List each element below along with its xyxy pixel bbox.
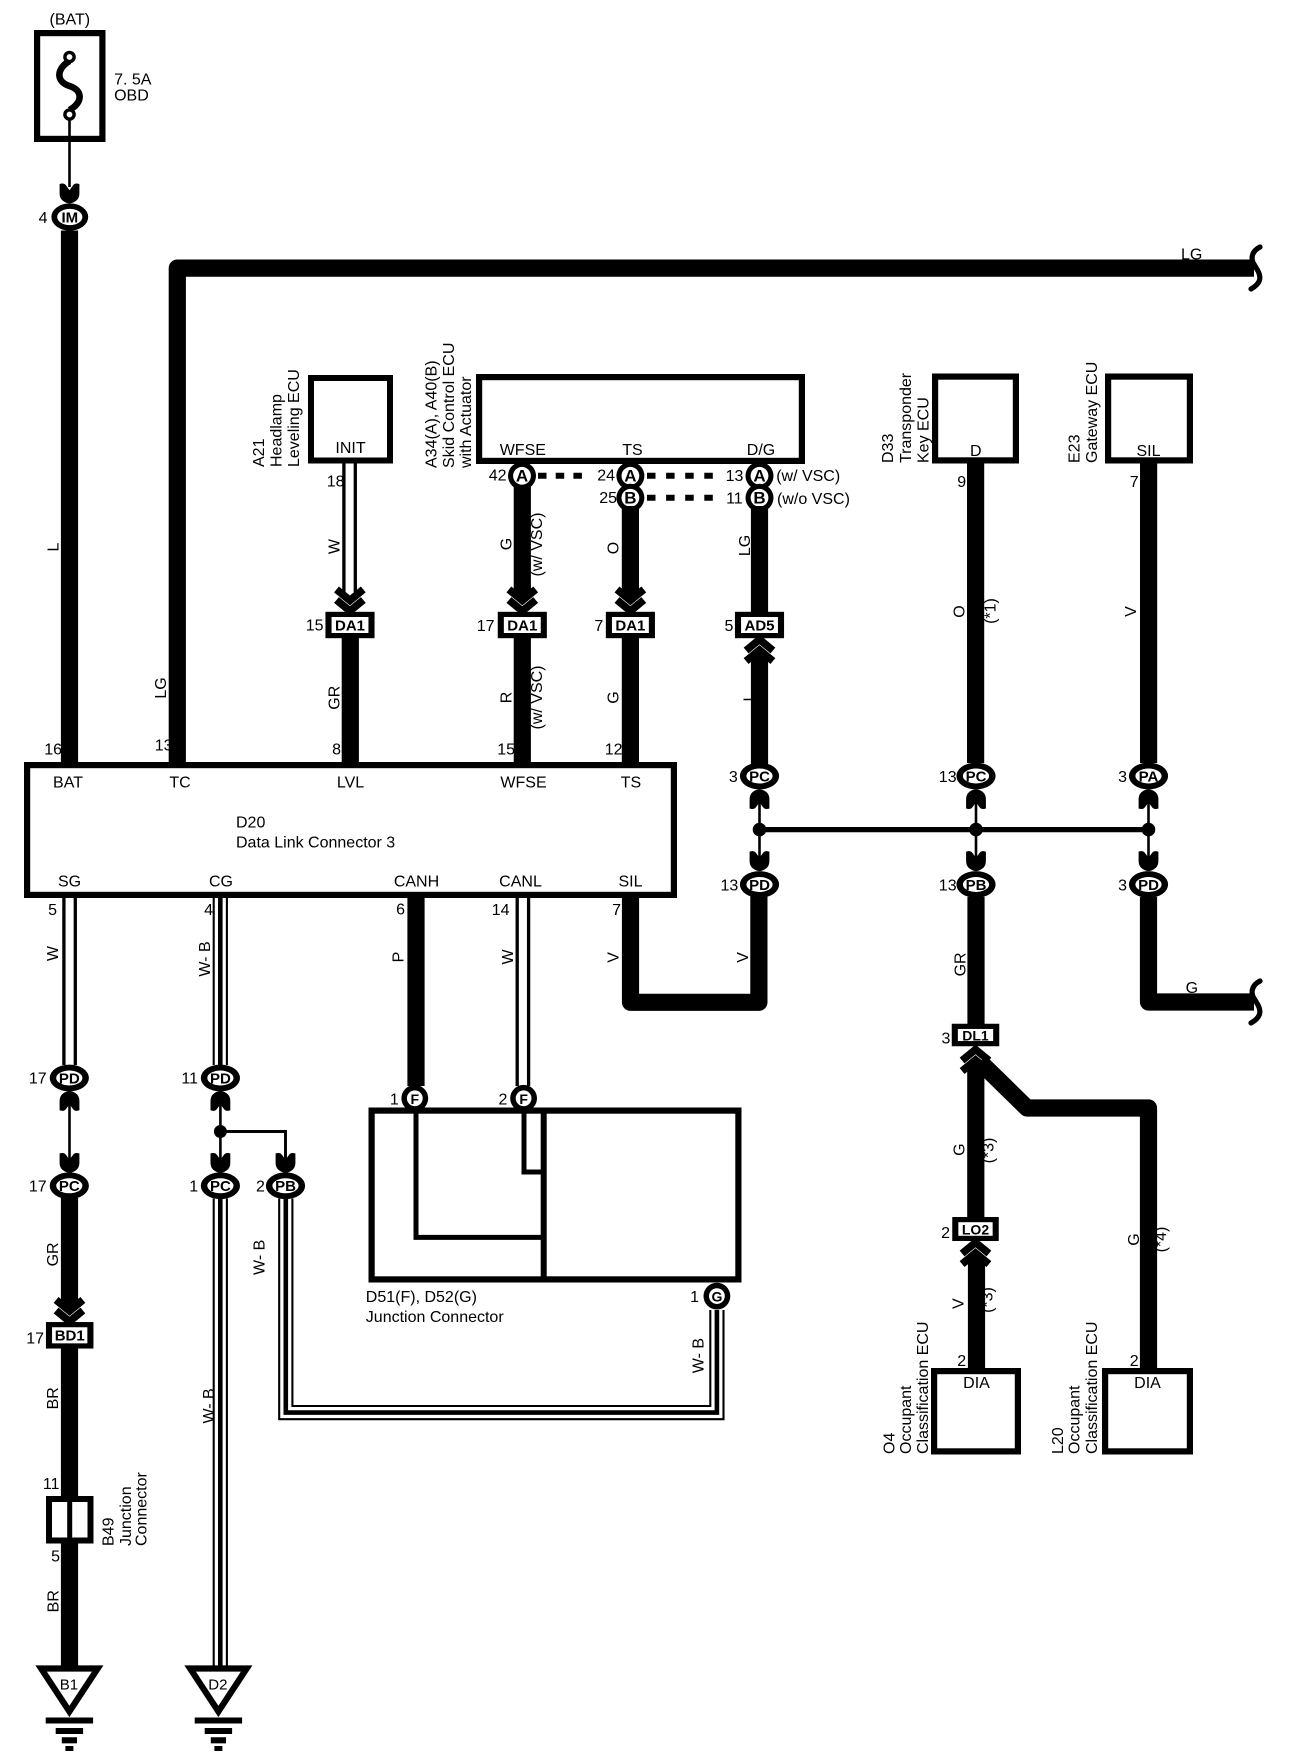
svg-text:D51(F), D52(G): D51(F), D52(G) <box>366 1289 477 1306</box>
svg-text:A: A <box>516 466 528 485</box>
svg-text:13: 13 <box>155 738 173 755</box>
svg-text:13: 13 <box>939 878 957 895</box>
svg-text:11: 11 <box>181 1071 198 1088</box>
svg-text:WFSE: WFSE <box>500 442 546 459</box>
arrow into PD <box>1139 851 1159 871</box>
link wire PC-PD column 1 <box>758 790 761 871</box>
svg-text:V: V <box>1123 606 1140 617</box>
ECU O4 Occupant Classification ECU <box>882 1322 1018 1454</box>
wire BR BD1 to B49 <box>61 1349 78 1497</box>
wire GR PC to BD1 <box>61 1198 78 1308</box>
svg-text:W- B: W- B <box>197 941 214 976</box>
arrow into PB <box>966 851 986 871</box>
svg-text:Gateway ECU: Gateway ECU <box>1084 362 1101 463</box>
svg-text:PC: PC <box>210 1178 231 1195</box>
svg-text:5: 5 <box>724 618 733 635</box>
svg-text:O: O <box>952 605 969 617</box>
arrow into PD <box>211 1091 231 1111</box>
wire R w/VSC DA1 to WFSE pin <box>514 638 531 764</box>
arrow out of AD5 <box>746 640 773 662</box>
svg-text:3: 3 <box>1118 769 1127 786</box>
svg-text:Transponder: Transponder <box>898 372 915 463</box>
svg-text:7: 7 <box>1130 474 1139 491</box>
svg-text:LVL: LVL <box>337 775 364 792</box>
svg-text:SIL: SIL <box>618 874 642 891</box>
svg-text:G: G <box>1186 980 1198 997</box>
arrow into PC <box>750 789 770 809</box>
bus link line between columns <box>756 827 1149 832</box>
svg-text:F: F <box>519 1091 528 1107</box>
svg-text:13: 13 <box>726 468 744 485</box>
svg-text:3: 3 <box>729 769 738 786</box>
svg-text:Connector: Connector <box>134 1472 151 1546</box>
svg-text:CANH: CANH <box>394 874 439 891</box>
svg-text:D: D <box>970 443 982 460</box>
svg-text:CANL: CANL <box>499 874 542 891</box>
svg-text:Data Link Connector 3: Data Link Connector 3 <box>236 835 395 852</box>
wire L from IM to DLC3 BAT <box>61 231 78 765</box>
junction dot column2 <box>969 823 983 837</box>
wire V SIL to connector PD <box>631 896 759 1002</box>
svg-text:PD: PD <box>749 877 770 894</box>
arrow into IM <box>60 184 80 204</box>
svg-text:DA1: DA1 <box>507 617 537 634</box>
svg-text:BR: BR <box>45 1387 62 1409</box>
arrow out of LO2 <box>962 1243 989 1265</box>
svg-text:14: 14 <box>492 902 510 919</box>
ECU E23 Gateway ECU <box>1067 362 1190 463</box>
svg-text:11: 11 <box>43 1476 60 1493</box>
svg-text:DA1: DA1 <box>615 617 645 634</box>
svg-text:PA: PA <box>1139 768 1159 785</box>
svg-text:25: 25 <box>599 490 617 507</box>
arrow into DA1 <box>617 589 644 611</box>
wire P CANH to junction connector F <box>407 896 424 1086</box>
dashed link 25B-11B <box>647 495 714 501</box>
svg-text:PD: PD <box>59 1070 80 1087</box>
svg-text:(*3): (*3) <box>980 1287 997 1313</box>
wire W-B CG to PD <box>213 896 215 1065</box>
svg-text:PD: PD <box>1138 877 1159 894</box>
junction connector B49 <box>49 1472 151 1546</box>
svg-text:D20: D20 <box>236 815 265 832</box>
svg-text:2: 2 <box>941 1225 950 1242</box>
svg-text:17: 17 <box>29 1179 47 1196</box>
svg-text:TS: TS <box>621 775 641 792</box>
wire V (*3) LO2 to O4 DIA <box>968 1257 985 1369</box>
svg-text:LG: LG <box>1181 247 1202 264</box>
svg-text:7: 7 <box>594 618 603 635</box>
ECU L20 Occupant Classification ECU <box>1050 1322 1190 1454</box>
wire break symbol <box>1251 247 1260 289</box>
wire W SG to PD <box>62 896 65 1065</box>
svg-text:SG: SG <box>58 874 81 891</box>
arrow into PC <box>211 1153 231 1173</box>
svg-text:GR: GR <box>326 686 343 710</box>
wire G DA1 to TS pin <box>622 638 639 764</box>
svg-text:Skid Control ECU: Skid Control ECU <box>441 343 458 468</box>
arrow into PA <box>1139 789 1159 809</box>
svg-text:W: W <box>327 538 344 554</box>
svg-text:D2: D2 <box>208 1677 227 1694</box>
svg-text:PD: PD <box>210 1070 231 1087</box>
ECU D33 Transponder Key ECU <box>880 372 1016 463</box>
junction dot column3 <box>1142 823 1156 837</box>
svg-text:A21: A21 <box>251 438 268 467</box>
svg-text:CG: CG <box>209 874 233 891</box>
svg-text:PB: PB <box>966 877 987 894</box>
svg-text:GR: GR <box>953 952 970 976</box>
svg-text:R: R <box>499 692 516 704</box>
wire G w/VSC from WFSE <box>514 485 531 597</box>
svg-text:A34(A), A40(B): A34(A), A40(B) <box>424 360 441 468</box>
svg-text:G: G <box>711 1289 722 1305</box>
svg-text:L: L <box>742 692 759 701</box>
svg-text:W- B: W- B <box>201 1388 218 1423</box>
svg-text:2: 2 <box>957 1353 966 1370</box>
svg-text:D/G: D/G <box>747 442 775 459</box>
svg-text:11: 11 <box>726 491 743 508</box>
svg-text:A: A <box>753 466 765 485</box>
svg-text:G: G <box>499 538 516 550</box>
wire fuse to IM <box>68 119 71 187</box>
svg-text:W- B: W- B <box>691 1338 708 1373</box>
svg-text:(*4): (*4) <box>1153 1227 1170 1253</box>
branch wire to PB <box>220 1132 285 1173</box>
svg-text:G: G <box>952 1143 969 1155</box>
svg-text:TS: TS <box>622 442 642 459</box>
wire G PD to break <box>1149 897 1255 1002</box>
link wire PD to junction <box>219 1092 222 1172</box>
svg-text:Junction: Junction <box>118 1486 135 1546</box>
svg-text:Occupant: Occupant <box>898 1385 915 1454</box>
svg-text:LG: LG <box>737 535 754 556</box>
wire V to PA <box>1140 464 1157 764</box>
svg-text:BD1: BD1 <box>55 1328 85 1345</box>
svg-text:O: O <box>606 542 623 554</box>
svg-text:12: 12 <box>605 742 623 759</box>
wire GR DA1 to LVL <box>342 638 359 764</box>
svg-text:WFSE: WFSE <box>500 775 546 792</box>
svg-text:Junction Connector: Junction Connector <box>366 1309 505 1326</box>
arrow into PC <box>966 789 986 809</box>
svg-text:P: P <box>390 952 407 963</box>
arrow into DA1 <box>509 589 536 611</box>
wire GR PB to DL1 <box>967 897 984 1025</box>
svg-text:Leveling ECU: Leveling ECU <box>286 369 303 467</box>
svg-text:Classification ECU: Classification ECU <box>915 1322 932 1454</box>
ECU A21 Headlamp Leveling ECU <box>251 369 390 467</box>
branch wire G (*4) DL1 to L20 DIA <box>980 1062 1149 1368</box>
dashed link 24A-13A <box>647 473 714 479</box>
svg-text:(BAT): (BAT) <box>50 11 91 28</box>
svg-text:7: 7 <box>612 902 621 919</box>
svg-text:(*3): (*3) <box>981 1138 998 1164</box>
svg-text:F: F <box>411 1091 420 1107</box>
svg-text:G: G <box>606 691 623 703</box>
junction dot <box>214 1125 227 1138</box>
svg-text:TC: TC <box>169 775 190 792</box>
link wire PC-PB column 2 <box>975 790 978 871</box>
svg-text:BAT: BAT <box>53 775 83 792</box>
link wire PA-PD column 3 <box>1147 790 1150 871</box>
svg-text:4: 4 <box>204 902 213 919</box>
svg-text:PB: PB <box>275 1178 296 1195</box>
arrow into BD1 <box>56 1300 83 1322</box>
svg-text:17: 17 <box>29 1071 47 1088</box>
svg-text:42: 42 <box>489 468 507 485</box>
svg-text:L20: L20 <box>1050 1427 1067 1454</box>
svg-text:6: 6 <box>396 902 405 919</box>
svg-text:B: B <box>753 488 765 507</box>
svg-text:17: 17 <box>26 1331 44 1348</box>
svg-text:PC: PC <box>59 1178 80 1195</box>
svg-text:8: 8 <box>332 742 341 759</box>
svg-text:W- B: W- B <box>252 1240 269 1275</box>
connector D20 Data Link Connector 3 <box>27 765 674 895</box>
svg-text:LG: LG <box>153 677 170 698</box>
svg-text:W: W <box>45 945 62 961</box>
wire BR B49 to ground B1 <box>61 1544 78 1670</box>
svg-text:D33: D33 <box>880 434 897 463</box>
svg-text:24: 24 <box>597 468 615 485</box>
svg-text:DIA: DIA <box>1134 1375 1161 1392</box>
arrow into PD <box>750 851 770 871</box>
svg-text:(w/ VSC): (w/ VSC) <box>776 468 840 485</box>
wire LG from DLC3 TC to gateway branch <box>177 268 1254 764</box>
svg-text:1: 1 <box>690 1289 699 1306</box>
svg-text:BR: BR <box>46 1590 63 1612</box>
svg-text:AD5: AD5 <box>744 617 774 634</box>
arrow out of DL1 <box>962 1050 989 1072</box>
svg-text:13: 13 <box>721 878 739 895</box>
svg-text:2: 2 <box>256 1179 265 1196</box>
wire W INIT to DA1 <box>342 464 345 593</box>
wire G (*3) DL1 to LO2 <box>967 1064 984 1218</box>
wire L AD5 to connector PC <box>751 654 768 765</box>
ground B1 <box>41 1669 98 1749</box>
svg-text:9: 9 <box>957 474 966 491</box>
svg-text:IM: IM <box>61 209 78 226</box>
wire LG from D/G <box>751 506 768 613</box>
svg-text:7. 5A: 7. 5A <box>114 71 152 88</box>
svg-text:E23: E23 <box>1067 434 1084 463</box>
svg-text:5: 5 <box>48 902 57 919</box>
arrow into DA1 <box>337 589 364 611</box>
svg-text:OBD: OBD <box>114 88 149 105</box>
wire W-B PB to junction connector G <box>279 1199 723 1420</box>
svg-text:(w/o VSC): (w/o VSC) <box>777 491 850 508</box>
dashed link 42A-24A <box>538 473 590 479</box>
svg-text:SIL: SIL <box>1136 443 1160 460</box>
svg-text:PC: PC <box>749 768 770 785</box>
svg-text:2: 2 <box>1130 1353 1139 1370</box>
junction dot column1 <box>753 823 767 837</box>
svg-text:(*1): (*1) <box>983 598 1000 624</box>
svg-text:V: V <box>606 952 623 963</box>
wire W CANL to junction connector F <box>516 896 519 1086</box>
svg-text:5: 5 <box>51 1549 60 1566</box>
svg-text:DIA: DIA <box>963 1375 990 1392</box>
wire W-B PC to ground D2 <box>213 1199 215 1670</box>
svg-text:Key ECU: Key ECU <box>916 397 933 463</box>
svg-text:Headlamp: Headlamp <box>269 394 286 467</box>
svg-text:18: 18 <box>327 474 345 491</box>
arrow into PB <box>276 1153 296 1173</box>
arrow into PD <box>60 1091 80 1111</box>
svg-text:DL1: DL1 <box>962 1027 989 1043</box>
svg-text:LO2: LO2 <box>962 1221 989 1237</box>
svg-text:B: B <box>624 488 636 507</box>
link wire PD-PC <box>68 1092 71 1172</box>
svg-text:PC: PC <box>966 768 987 785</box>
svg-text:O4: O4 <box>882 1433 899 1454</box>
svg-text:L: L <box>46 542 63 551</box>
svg-text:B49: B49 <box>101 1517 118 1546</box>
svg-text:Classification ECU: Classification ECU <box>1084 1322 1101 1454</box>
svg-text:A: A <box>624 466 636 485</box>
svg-text:3: 3 <box>941 1031 950 1048</box>
svg-text:G: G <box>1126 1233 1143 1245</box>
svg-text:1: 1 <box>390 1092 399 1109</box>
svg-text:13: 13 <box>939 769 957 786</box>
svg-text:V: V <box>735 952 752 963</box>
svg-text:17: 17 <box>477 618 495 635</box>
wire break symbol <box>1251 981 1260 1023</box>
svg-text:W: W <box>500 949 517 965</box>
svg-text:INIT: INIT <box>335 440 365 457</box>
svg-text:Occupant: Occupant <box>1067 1385 1084 1454</box>
svg-text:(w/ VSC): (w/ VSC) <box>529 513 546 577</box>
svg-text:4: 4 <box>39 210 48 227</box>
svg-text:3: 3 <box>1118 878 1127 895</box>
svg-text:16: 16 <box>44 742 62 759</box>
svg-text:2: 2 <box>498 1092 507 1109</box>
svg-text:V: V <box>951 1298 968 1309</box>
svg-text:1: 1 <box>189 1179 198 1196</box>
wire O from TS <box>622 506 639 597</box>
svg-text:15: 15 <box>306 618 324 635</box>
arrow into PC <box>60 1153 80 1173</box>
svg-text:B1: B1 <box>60 1677 78 1694</box>
fuse 7.5A OBD <box>37 33 102 139</box>
junction connector D51(F) D52(G) <box>372 1110 739 1280</box>
svg-text:with Actuator: with Actuator <box>458 376 475 469</box>
svg-text:GR: GR <box>45 1242 62 1266</box>
svg-text:(w/ VSC): (w/ VSC) <box>529 666 546 730</box>
svg-text:15: 15 <box>497 742 515 759</box>
ECU A34(A) A40(B) Skid Control ECU with Actuator <box>424 343 802 469</box>
ground D2 <box>190 1669 247 1749</box>
wire O (*1) to PC <box>967 464 984 764</box>
svg-text:DA1: DA1 <box>335 617 365 634</box>
